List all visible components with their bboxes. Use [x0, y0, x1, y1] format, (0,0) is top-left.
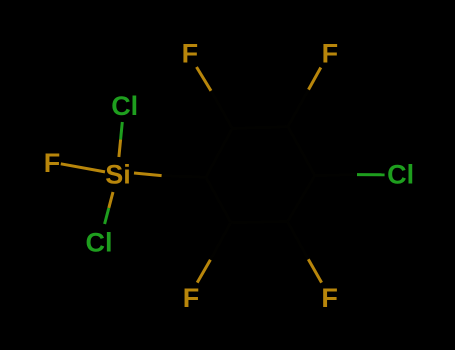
wire: carbon-side half bonds (dark) — [162, 90, 357, 260]
bond C3-Cl(right) inner half — [315, 173, 357, 177]
svg-text:Cl: Cl — [86, 228, 113, 258]
bond C5-F(bottom-left) inner half — [210, 223, 230, 260]
bond C1-F(top-left) inner half — [211, 91, 232, 129]
bond Si-Cl top: Si half (goldenrod) — [119, 140, 121, 158]
svg-text:F: F — [183, 283, 200, 313]
svg-text:Cl: Cl — [387, 160, 414, 190]
bond C1-F top-left outer half (goldenrod) — [197, 67, 212, 91]
bond F-Si left (goldenrod full) — [61, 164, 105, 172]
bond C6-Si inner half — [162, 176, 206, 178]
benzene ring (carbon skeleton, very dark olive) — [206, 127, 315, 223]
bond Si-Cl bottom: Si half (goldenrod) — [109, 192, 113, 208]
bond C5-F bottom-left outer half (goldenrod) — [197, 260, 210, 283]
bond Si-Cl top: Cl half (green) — [121, 122, 123, 140]
bond C3-Cl right outer half (green) — [357, 173, 385, 176]
bond Si-C6 outer half (goldenrod) — [134, 173, 162, 176]
bond C4-F(bottom-right) inner half — [288, 222, 309, 260]
svg-text:F: F — [182, 39, 199, 69]
svg-text:F: F — [321, 283, 338, 313]
bond C2-F top-right outer half (goldenrod) — [309, 68, 321, 90]
svg-text:Cl: Cl — [111, 91, 138, 121]
bond Si-Cl bottom: Cl half (green) — [105, 208, 109, 224]
bond C4-F bottom-right outer half (goldenrod) — [308, 259, 321, 282]
svg-text:F: F — [44, 148, 61, 178]
svg-text:F: F — [322, 38, 339, 68]
bond C2-F(top-right) inner half — [288, 90, 309, 127]
svg-text:Si: Si — [105, 160, 131, 190]
